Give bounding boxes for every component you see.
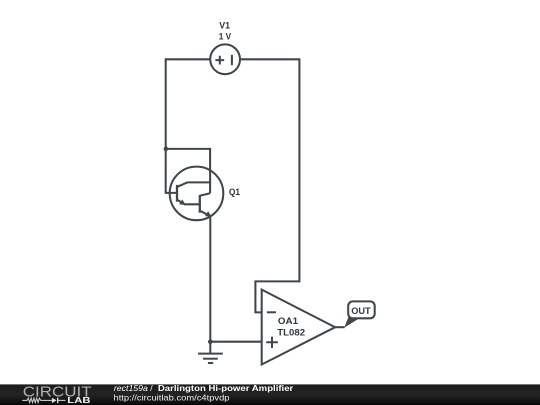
svg-text:1 V: 1 V (219, 31, 232, 42)
wire collector feed from node A (166, 149, 210, 193)
svg-text:OA1: OA1 (278, 316, 298, 326)
voltage source V1 (210, 44, 240, 74)
logo diode (52, 398, 57, 403)
net flag OUT (344, 301, 374, 327)
Q1 emitter 2 lead (200, 211, 211, 217)
node A junction dot (164, 147, 169, 152)
footer bar (0, 384, 540, 405)
OA1 inverting input minus (267, 311, 276, 313)
op-amp OA1 (262, 290, 335, 365)
svg-text:LAB: LAB (67, 395, 90, 405)
Q1 emitter 1 lead (177, 200, 200, 205)
wire V1 left terminal to Q1 base (166, 59, 211, 193)
svg-text:http://circuitlab.com/c4tpvdp: http://circuitlab.com/c4tpvdp (114, 393, 230, 403)
OA1 non-inverting input plus (266, 337, 278, 348)
node B junction dot (208, 339, 213, 344)
Q1 collector 1 lead (177, 182, 210, 187)
wire node B to op-amp non-inverting input (210, 341, 261, 343)
wire op-amp output stub (335, 326, 345, 328)
wire Q1 emitter down to node B (209, 216, 211, 342)
svg-text:OUT: OUT (351, 306, 371, 317)
Q1 collector 2 lead (200, 193, 210, 196)
wire V1 right terminal to op-amp inverting input (240, 59, 299, 312)
Q1 emitter 2 arrow (205, 211, 211, 217)
ground (198, 354, 223, 363)
transistor Q1 (Darlington NPN) (170, 167, 224, 221)
svg-text:V1: V1 (219, 20, 230, 31)
svg-text:TL082: TL082 (277, 327, 305, 337)
Q1 base bar 2 (199, 195, 201, 213)
Q1 emitter 1 arrow (179, 199, 185, 205)
Q1 base bar 1 (176, 185, 178, 202)
wire node B to ground (209, 342, 211, 354)
svg-text:Q1: Q1 (229, 187, 240, 197)
logo resistor zigzag (22, 398, 52, 402)
